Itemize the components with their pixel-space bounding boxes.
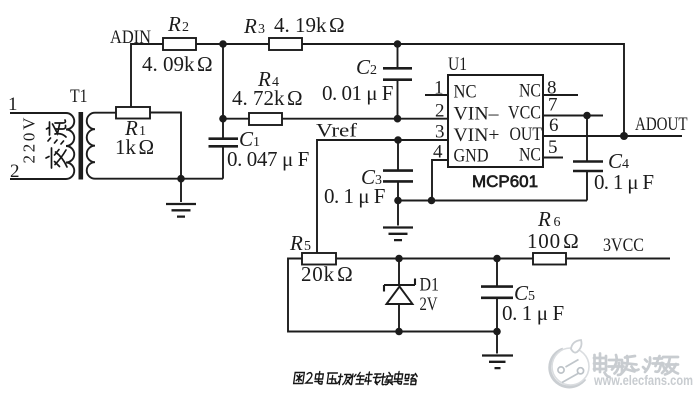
ground under C5 xyxy=(496,332,498,354)
node C2 top dot xyxy=(394,40,402,48)
svg-text:2: 2 xyxy=(10,161,20,182)
zener diode D1 xyxy=(398,259,400,287)
svg-text:6: 6 xyxy=(549,115,559,136)
svg-text:1: 1 xyxy=(8,94,18,115)
resistor R1 xyxy=(116,107,150,119)
svg-text:1kΩ: 1kΩ xyxy=(115,135,154,159)
watermark brand text 电子发烧友 xyxy=(594,354,678,378)
node C3 bottom dot xyxy=(394,197,402,205)
ground under C3 xyxy=(397,201,399,226)
wire R4 to pin2 xyxy=(282,118,448,120)
node VCC/C4 dot xyxy=(583,112,591,120)
svg-text:220V: 220V xyxy=(20,115,39,164)
svg-text:MCP601: MCP601 xyxy=(472,172,538,191)
wire Vref rail to pin3 and down to R5 xyxy=(317,140,448,253)
svg-text:R: R xyxy=(537,207,551,231)
svg-text:5: 5 xyxy=(304,239,311,254)
svg-text:D1: D1 xyxy=(420,275,440,296)
svg-text:OUT: OUT xyxy=(510,124,543,145)
svg-text:NC: NC xyxy=(519,145,541,166)
svg-text:VIN+: VIN+ xyxy=(454,125,500,146)
wire R5 left down to bottom rail xyxy=(288,259,497,332)
label 交流 (rotated, drawn strokes) xyxy=(46,120,67,168)
svg-text:2V: 2V xyxy=(420,294,438,315)
svg-text:5: 5 xyxy=(548,137,558,158)
node A dot (R2/R3 junction) xyxy=(219,40,227,48)
svg-text:1: 1 xyxy=(434,78,444,99)
node bottom-rail junction dot xyxy=(177,175,185,183)
wire to R4 xyxy=(223,118,249,120)
resistor R4 xyxy=(249,113,282,125)
wire ADIN corner to R1 top xyxy=(131,44,163,107)
capacitor C1 xyxy=(222,119,224,138)
svg-text:www.elecfans.com: www.elecfans.com xyxy=(593,373,693,388)
resistor R2 xyxy=(163,38,196,50)
node pin4 junction dot xyxy=(428,197,436,205)
pin4 wire to gnd rail xyxy=(432,160,448,201)
svg-text:6: 6 xyxy=(554,215,561,230)
svg-text:T1: T1 xyxy=(70,86,88,107)
node OUT/feedback dot xyxy=(620,132,628,140)
resistor R5 xyxy=(302,253,336,265)
svg-text:U1: U1 xyxy=(448,54,467,75)
svg-text:0. 1 μ F: 0. 1 μ F xyxy=(594,170,653,194)
svg-text:2: 2 xyxy=(370,63,377,78)
wire VCC pin7 stub xyxy=(543,115,603,117)
wire R1 right down to bottom rail xyxy=(150,113,181,179)
svg-text:3VCC: 3VCC xyxy=(603,235,644,256)
gnd rail C3 to C4 xyxy=(398,200,587,202)
transformer T1 secondary winding xyxy=(87,113,223,179)
pin 1 stub xyxy=(425,94,448,96)
svg-text:ADIN: ADIN xyxy=(110,27,151,48)
svg-text:7: 7 xyxy=(548,95,558,116)
svg-text:3: 3 xyxy=(258,22,265,37)
transformer T1 core xyxy=(79,112,84,180)
wire R6 to 3VCC xyxy=(566,258,670,260)
svg-text:R: R xyxy=(243,14,257,38)
svg-text:20kΩ: 20kΩ xyxy=(301,262,354,286)
caption 图2 电压极性转换电路 xyxy=(293,372,417,385)
svg-text:R: R xyxy=(289,231,303,255)
capacitor C2 xyxy=(397,44,399,67)
svg-text:NC: NC xyxy=(519,81,541,102)
svg-text:4. 72kΩ: 4. 72kΩ xyxy=(232,86,303,110)
pin 8 stub xyxy=(543,94,578,96)
node C5 bottom dot xyxy=(493,328,501,336)
svg-text:4. 09kΩ: 4. 09kΩ xyxy=(142,52,213,76)
capacitor C5 xyxy=(496,259,498,286)
svg-text:ADOUT: ADOUT xyxy=(635,114,688,135)
svg-text:2: 2 xyxy=(435,101,445,122)
resistor R3 xyxy=(269,38,302,50)
capacitor C4 xyxy=(586,116,588,161)
pin 5 stub xyxy=(543,157,563,159)
svg-text:2: 2 xyxy=(182,20,189,35)
node C5 top dot xyxy=(493,255,501,263)
node C2-bottom dot xyxy=(394,115,402,123)
svg-text:VIN–: VIN– xyxy=(454,104,500,125)
wire R5 right to R6 xyxy=(336,258,533,260)
node D1 bottom dot xyxy=(395,328,403,336)
svg-text:0. 1 μ F: 0. 1 μ F xyxy=(502,301,564,325)
transformer T1 primary winding xyxy=(10,113,74,179)
node D1 top dot xyxy=(395,255,403,263)
node B dot (R4 rail / C1) xyxy=(219,115,227,123)
wire R3 right along top to feedback corner xyxy=(302,44,624,136)
wire vertical node A down to R4 rail xyxy=(222,44,224,119)
svg-text:C: C xyxy=(356,55,371,79)
ground under transformer xyxy=(180,179,182,202)
svg-text:VCC: VCC xyxy=(508,103,541,124)
svg-text:0. 047 μ F: 0. 047 μ F xyxy=(227,147,309,171)
svg-text:0. 01 μ F: 0. 01 μ F xyxy=(322,81,393,105)
wire OUT pin6 to ADOUT xyxy=(543,135,682,137)
resistor R6 xyxy=(533,253,566,265)
svg-text:Vref: Vref xyxy=(316,121,358,142)
svg-text:100Ω: 100Ω xyxy=(527,229,580,253)
svg-text:4: 4 xyxy=(433,142,443,163)
wire R2 to node A xyxy=(196,43,269,45)
op-amp U1 MCP601 box xyxy=(448,75,543,167)
svg-text:NC: NC xyxy=(454,82,477,103)
svg-text:0. 1 μ F: 0. 1 μ F xyxy=(324,184,385,208)
svg-text:GND: GND xyxy=(454,146,489,167)
svg-text:4. 19kΩ: 4. 19kΩ xyxy=(274,13,345,37)
capacitor C3 xyxy=(397,140,399,170)
svg-text:3: 3 xyxy=(435,122,445,143)
watermark logo xyxy=(550,340,589,387)
node C3 top dot xyxy=(394,136,402,144)
svg-text:R: R xyxy=(167,12,181,36)
